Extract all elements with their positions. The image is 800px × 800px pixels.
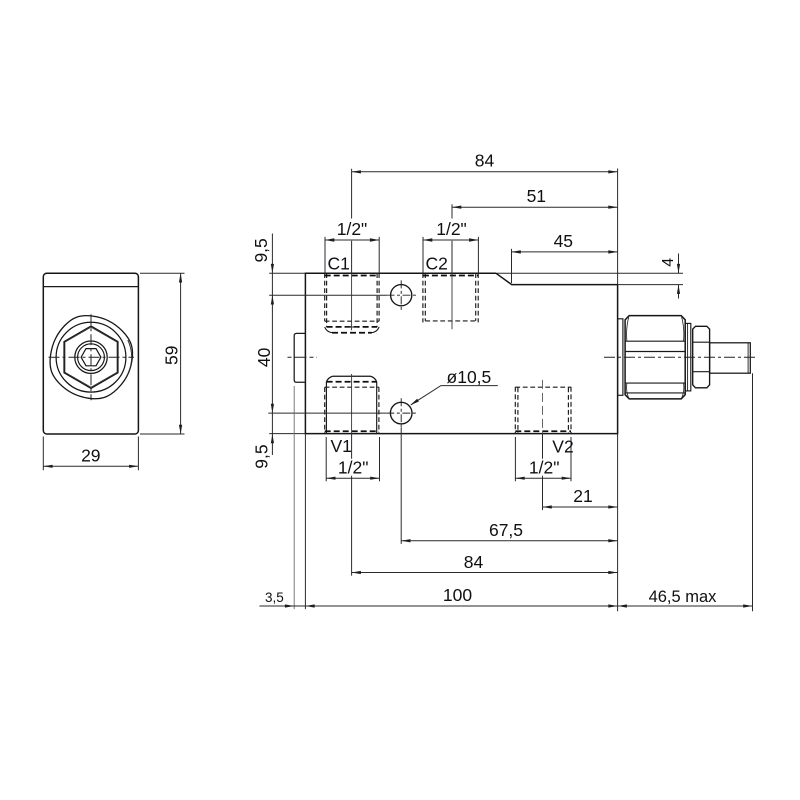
knob chamfer circle <box>56 322 126 392</box>
svg-text:1/2": 1/2" <box>338 458 369 478</box>
svg-text:67,5: 67,5 <box>489 520 523 540</box>
port C2 outer dashed lines <box>423 273 478 322</box>
knob hex chamfer arcs (inner hexagon) <box>65 327 117 387</box>
svg-text:1/2": 1/2" <box>436 219 467 239</box>
extension lines C1 half-inch <box>325 237 379 273</box>
knob outer second arc hint <box>124 340 131 381</box>
extension line V2 center down <box>542 434 544 511</box>
extension lines dim 4 <box>497 273 683 284</box>
mounting hole top cross <box>387 280 417 310</box>
extension lines V2 half-inch <box>515 437 571 481</box>
washer at body face <box>618 319 623 396</box>
extension line boss face down <box>293 386 295 609</box>
lock washer <box>685 323 691 391</box>
svg-text:1/2": 1/2" <box>529 458 560 478</box>
port V1 bottom bold dashed <box>325 430 379 432</box>
port C1 outer dashed thread lines <box>325 273 379 321</box>
leader dimension diameter 10,5 <box>410 367 498 405</box>
extension lines 59 <box>140 273 185 434</box>
svg-text:45: 45 <box>554 231 573 251</box>
dimension 3,5 <box>259 590 305 608</box>
knob horizontal centerline <box>49 356 135 358</box>
dimension 4 <box>660 254 680 299</box>
dimension 59 <box>161 273 182 434</box>
knob hex flats (outer hexagon) <box>64 326 118 388</box>
big hex nut face lines <box>625 341 685 393</box>
dimension 67,5 <box>401 520 617 543</box>
extension lines V1 half-inch <box>326 437 379 481</box>
extension lines 29 <box>43 437 138 471</box>
extension line 45 left <box>511 249 513 283</box>
dimension 1/2-inch C1 <box>325 219 379 242</box>
dimension 1/2-inch V2 <box>515 458 571 480</box>
stem end chamfer line <box>747 343 749 373</box>
svg-text:3,5: 3,5 <box>265 590 284 605</box>
dimension 46,5 max <box>618 588 753 608</box>
knob inner circle outer <box>75 341 107 373</box>
extension line C1 center up <box>351 169 353 273</box>
dimensions 9,5 / 40 / 9,5 <box>251 234 274 469</box>
svg-text:9,5: 9,5 <box>251 238 271 262</box>
left view body outline <box>43 273 138 434</box>
port C2 centerline <box>451 273 453 329</box>
port V1 thread end bold dashed <box>327 381 377 383</box>
dimension 45 <box>512 231 618 253</box>
dimension 1/2-inch V1 <box>326 458 379 480</box>
left view top step line <box>44 286 139 288</box>
port V1 centerline <box>351 374 353 434</box>
port C1 thread end bold dashed line <box>327 326 378 328</box>
svg-text:4: 4 <box>660 258 677 267</box>
dimension 84 bottom <box>352 552 618 574</box>
svg-text:21: 21 <box>573 486 592 506</box>
port C1 centerline <box>346 273 358 330</box>
small hex locknut outline <box>693 326 710 388</box>
svg-text:59: 59 <box>161 346 181 365</box>
port V1 outer dashed lines <box>325 387 379 433</box>
port V1 spotface trapezoid solid <box>326 376 376 382</box>
extension lines C2 half-inch <box>423 237 478 273</box>
svg-text:C2: C2 <box>426 254 448 274</box>
knob socket hexagon <box>81 349 101 366</box>
svg-text:V2: V2 <box>552 436 573 456</box>
knob outer wavy outline <box>50 316 132 399</box>
svg-text:1/2": 1/2" <box>337 219 368 239</box>
mounting hole bottom cross <box>386 398 416 428</box>
knob inner circle inner <box>78 344 105 371</box>
mounting hole top <box>391 285 412 306</box>
extension line C2 center up <box>451 204 453 273</box>
dimension 1/2-inch C2 <box>423 219 478 242</box>
svg-text:V1: V1 <box>331 436 352 456</box>
svg-text:C1: C1 <box>328 254 350 274</box>
main body outline <box>305 273 617 433</box>
extension line body left down <box>304 434 306 609</box>
svg-text:29: 29 <box>81 445 100 465</box>
port C1 top bold dashed line <box>325 275 379 277</box>
port V2 centerline <box>542 380 544 434</box>
svg-text:51: 51 <box>527 186 546 206</box>
svg-text:46,5 max: 46,5 max <box>649 588 718 606</box>
port C1 spotface bottom bold dashed <box>332 332 372 334</box>
extension line stem end down <box>752 373 754 611</box>
port V2 bottom bold dashed <box>515 430 571 432</box>
port V2 outer dashed lines <box>515 387 571 434</box>
side boss on left face <box>294 333 305 382</box>
boss centerline <box>288 356 318 358</box>
extension line body right edge vertical <box>617 169 619 612</box>
knob vertical centerline <box>90 314 92 400</box>
stem axis centerline <box>604 356 756 358</box>
extension line V1 center down <box>351 434 353 576</box>
extension line body bottom left <box>269 433 305 435</box>
port C1 spotface corners <box>325 327 379 333</box>
mounting hole bottom <box>390 402 412 424</box>
big hex nut outline <box>625 316 685 399</box>
small hex locknut face lines <box>693 342 710 372</box>
extension line hole bottom center down <box>400 428 402 544</box>
extension line hole top horizontal <box>269 294 386 296</box>
svg-text:40: 40 <box>254 347 274 367</box>
adjustment stem <box>710 343 751 373</box>
dimension 84 top <box>352 151 618 174</box>
svg-text:84: 84 <box>464 552 484 572</box>
lock washer inner line <box>687 323 689 391</box>
big hex corner arcs <box>627 316 684 399</box>
svg-text:84: 84 <box>475 151 495 171</box>
port V1 solid side lines <box>326 382 376 434</box>
port V2 inner dashed lines <box>518 388 569 434</box>
dimension 51 <box>452 186 618 209</box>
svg-text:9,5: 9,5 <box>252 444 272 468</box>
port C2 inner dashed lines <box>425 273 475 321</box>
dimension 21 <box>543 486 618 508</box>
svg-text:ø10,5: ø10,5 <box>447 367 492 387</box>
port C1 inner dashed lines <box>327 273 378 327</box>
port C2 top bold dashed line <box>423 275 478 277</box>
extension line hole bottom horizontal <box>268 412 386 414</box>
svg-text:100: 100 <box>443 585 472 605</box>
dimension 100 <box>305 585 617 607</box>
extension line body top left <box>269 272 305 274</box>
dimension 29 <box>43 445 138 468</box>
